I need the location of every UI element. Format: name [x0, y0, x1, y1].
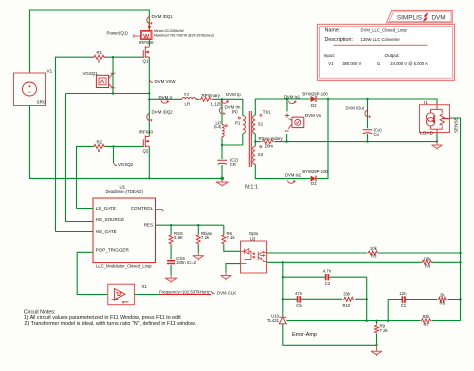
winding S2 [253, 146, 256, 164]
node switch to resonant junction [148, 98, 150, 100]
svg-text:3.9K: 3.9K [174, 235, 183, 240]
frequency underline [159, 294, 211, 296]
wire C5 R10 row [283, 298, 367, 300]
svg-text:Q1: Q1 [143, 59, 149, 64]
svg-text:33k: 33k [343, 292, 351, 297]
svg-text:DVM Ip: DVM Ip [226, 92, 241, 97]
svg-text:DVM: DVM [431, 14, 445, 21]
probe DVM IOut arrow [365, 110, 371, 118]
winding S1 [253, 115, 256, 133]
svg-text:TX1: TX1 [263, 109, 272, 114]
shunt regulator TL431 [279, 317, 286, 324]
wire VGSQ2 tap [113, 146, 115, 162]
resistor R3 [367, 251, 378, 255]
svg-text:R8: R8 [440, 300, 446, 305]
resistor Rbias [196, 234, 200, 245]
wire center tap rail to load [255, 134, 437, 147]
resistor R8 [438, 297, 447, 301]
node C1 branch junction [387, 320, 389, 322]
wire SENSE line [450, 118, 461, 321]
load internal wiring [431, 105, 450, 133]
node Vs minus junction [285, 140, 287, 142]
svg-text:DVM Vs: DVM Vs [305, 113, 322, 118]
DVM logo tab [387, 10, 453, 22]
svg-text:100n IC=2: 100n IC=2 [176, 260, 197, 265]
phase dot P1 [238, 117, 240, 119]
svg-text:5.6: 5.6 [184, 92, 189, 96]
wire opto LED cathode to ground [226, 264, 241, 273]
resistor R2 [93, 144, 105, 148]
transistor Q2 [142, 135, 149, 147]
svg-text:TL431: TL431 [267, 318, 280, 323]
probe DVM IDQ2 arrow [147, 114, 153, 122]
svg-text:HS_GATE: HS_GATE [96, 229, 117, 234]
wire HS_GATE drive [56, 57, 144, 231]
diode D1 [311, 176, 316, 182]
svg-text:47n: 47n [295, 291, 303, 296]
wire LS_GATE drive [77, 146, 144, 208]
wire X1 clock output [134, 294, 211, 296]
svg-text:Output:: Output: [385, 53, 400, 58]
voltage source V1 box [14, 73, 46, 106]
node center tap junction [254, 140, 256, 142]
wire C1 R8 row [388, 300, 460, 321]
resistor RPrimary [200, 97, 212, 101]
wire C2 row [283, 276, 367, 278]
svg-text:120W LLC Converter: 120W LLC Converter [361, 37, 401, 42]
load current source [426, 113, 435, 126]
wire reference row [286, 320, 460, 322]
power probe leader line [134, 34, 141, 37]
power probe W box [141, 31, 153, 41]
capacitor CSS [167, 261, 175, 264]
svg-text:1.125: 1.125 [211, 102, 223, 107]
svg-text:X1: X1 [142, 284, 148, 289]
node Q2 gate junction [112, 145, 114, 147]
node Q1 gate junction [112, 56, 114, 58]
node Q2 source rail junction [148, 177, 150, 179]
node load return junction [436, 140, 438, 142]
wire opto emitter row to SENSE [267, 261, 461, 263]
svg-text:N:1:1: N:1:1 [245, 184, 258, 190]
wire VGSQ1 gate-source tap [112, 57, 114, 93]
node C5 row junction [282, 298, 284, 300]
probe DVM Im arrow [220, 107, 226, 115]
probe VGSQ1 box [96, 73, 115, 88]
svg-text:10k: 10k [370, 246, 378, 251]
svg-text:Q2: Q2 [143, 149, 149, 154]
svg-text:CR: CR [230, 162, 236, 167]
svg-text:VGSQ2: VGSQ2 [118, 162, 134, 167]
clock source X1 symbol [112, 289, 129, 304]
svg-text:SENSE: SENSE [454, 117, 459, 133]
wire POP_TRIGGER to X1 [77, 252, 108, 294]
svg-text:DVM IDQ1: DVM IDQ1 [152, 14, 174, 19]
wire R9 column [376, 321, 378, 346]
ground CSS [165, 275, 177, 283]
wire secondary top rail [255, 99, 437, 115]
wire R6 branch to opto LED [224, 225, 241, 251]
ground error amp [371, 348, 382, 356]
svg-text:SIMPLIS: SIMPLIS [397, 14, 422, 21]
svg-text:RPrimary: RPrimary [202, 93, 221, 98]
phase dot LP [225, 125, 227, 127]
svg-text:Error-Amp: Error-Amp [292, 332, 317, 338]
node Vs plus junction [286, 98, 288, 100]
wire RES rail [156, 224, 224, 226]
probe power arrow [148, 24, 151, 29]
wire Rbias branch [197, 225, 199, 252]
svg-text:DVM IDQ2: DVM IDQ2 [152, 109, 174, 114]
wire compensation vertical [282, 262, 284, 316]
subcircuit U1 box [93, 198, 156, 263]
svg-text:R2: R2 [97, 139, 103, 144]
svg-text:RSecondary: RSecondary [259, 136, 284, 141]
svg-text:R1: R1 [97, 50, 103, 55]
resistor R7 [421, 319, 432, 323]
svg-text:LLC_Modulator_Closed_Loop: LLC_Modulator_Closed_Loop [96, 263, 152, 268]
svg-text:SRC: SRC [37, 100, 47, 105]
ground error amp stub [376, 345, 378, 348]
wire load bottom [436, 133, 438, 142]
svg-text:R10: R10 [343, 303, 351, 308]
svg-text:C5: C5 [296, 303, 302, 308]
svg-text:Deadtime=(TDEAD): Deadtime=(TDEAD) [106, 189, 144, 194]
svg-text:Name:: Name: [325, 28, 341, 34]
probe DVM VSW hook [149, 80, 153, 83]
svg-text:S2: S2 [258, 152, 264, 157]
svg-text:Power(Q1): Power(Q1) [107, 31, 129, 36]
node Co top junction [366, 98, 368, 100]
svg-text:IRF640: IRF640 [139, 40, 154, 45]
DVM lightning bolt [423, 13, 428, 22]
probe DVM IDQ1 arrow [147, 17, 153, 25]
wire comp right vertical [366, 277, 368, 321]
resistor RSecondary [262, 140, 274, 144]
svg-text:IRF640: IRF640 [139, 130, 154, 135]
DVM info box [318, 24, 455, 80]
probe DVM Vs box [288, 117, 304, 129]
clock source X1 box [108, 284, 135, 305]
svg-text:Input:: Input: [324, 53, 336, 58]
phase dot S1 [260, 114, 262, 116]
svg-text:DVM Ir: DVM Ir [159, 95, 173, 100]
node comp network junction [282, 261, 284, 263]
svg-text:Maximum=59.7087W @24.2678uSecs: Maximum=59.7087W @24.2678uSecs [154, 33, 214, 37]
svg-text:7.2k: 7.2k [201, 235, 210, 240]
svg-text:Frequency=102.537kHertz: Frequency=102.537kHertz [159, 289, 210, 294]
svg-text:(N): (N) [232, 109, 238, 114]
node LP top junction [221, 98, 223, 100]
transformer core [249, 111, 251, 167]
probe DVM Is1 arrow [289, 101, 297, 104]
wire CONTROL stub [156, 210, 164, 212]
svg-text:12n: 12n [399, 291, 407, 296]
svg-text:(L4): (L4) [214, 124, 222, 129]
DVM box separator [334, 44, 428, 46]
resistor RSS [169, 234, 173, 245]
wire CR resonant cap branch [221, 145, 223, 178]
wire HS_SOURCE to switch node [66, 94, 150, 222]
wire LP magnetizing branch [222, 99, 243, 145]
svg-text:R4: R4 [425, 264, 431, 269]
node SENSE R3 junction [459, 252, 461, 254]
svg-text:I1: I1 [424, 100, 428, 105]
optocoupler U3 internals [241, 249, 267, 264]
svg-text:RES: RES [144, 223, 153, 228]
svg-text:82k: 82k [423, 314, 431, 319]
node R10 right junction [366, 298, 368, 300]
svg-text:R7: R7 [424, 322, 430, 327]
svg-text:V1: V1 [47, 69, 53, 74]
probe DVM Vs plus [285, 113, 289, 117]
wire Q2 source to rail [148, 146, 150, 178]
svg-text:V1: V1 [328, 61, 334, 66]
probe DVM CLK hook [211, 291, 215, 294]
svg-text:Description:: Description: [325, 37, 353, 43]
probe DVM Is2 arrow [288, 180, 296, 183]
svg-text:20m: 20m [265, 144, 274, 149]
wire RSS branch [170, 225, 172, 275]
winding P1 [243, 116, 246, 134]
resistor R4 [421, 260, 432, 264]
node Rbias junction [197, 224, 199, 226]
capacitor Co [363, 130, 373, 134]
diode D2 [311, 96, 316, 102]
probe DVM Ip arrow [221, 100, 229, 103]
svg-text:P1: P1 [235, 121, 241, 126]
node RSS junction [170, 224, 172, 226]
node C2 row junction [282, 276, 284, 278]
node Q1 source junction [112, 92, 114, 94]
node LP bottom junction [221, 144, 223, 146]
svg-text:POP_TRIGGER: POP_TRIGGER [96, 248, 130, 253]
node D1 cathode junction [327, 98, 329, 100]
svg-text:DVM CLK: DVM CLK [217, 290, 236, 295]
probe DVM Vs minus [285, 130, 289, 132]
node R9 ground junction [375, 344, 377, 346]
wire S2 to D1 [255, 99, 328, 179]
svg-text:4.7n: 4.7n [323, 268, 332, 273]
svg-text:BYW29P-100: BYW29P-100 [302, 169, 328, 174]
svg-text:DVM_LLC_Closed_Loop: DVM_LLC_Closed_Loop [361, 27, 408, 32]
svg-text:R3: R3 [371, 253, 377, 258]
svg-text:Co: Co [374, 132, 380, 137]
svg-text:D2: D2 [311, 103, 317, 108]
probe DVM Ir arrow [161, 100, 169, 103]
inductor LR [182, 98, 196, 100]
svg-text:24.000 V @ 5.000 A: 24.000 V @ 5.000 A [390, 61, 428, 66]
transistor Q2 arrow [146, 140, 149, 143]
node R9 top junction [375, 320, 377, 322]
ground Rbias [193, 252, 204, 260]
optocoupler U3 box [241, 241, 267, 273]
svg-text:DVM Is2: DVM Is2 [285, 172, 302, 177]
ground load [432, 142, 443, 150]
ground opto LED [221, 272, 232, 280]
svg-text:W: W [143, 33, 150, 40]
capacitor C2 [326, 274, 329, 280]
svg-text:DVM VSW: DVM VSW [155, 79, 177, 84]
capacitor CR [217, 160, 227, 164]
resistor R9 [375, 324, 379, 334]
voltage source V1 circle [23, 82, 37, 96]
svg-text:HS_SOURCE: HS_SOURCE [96, 217, 125, 222]
node ref row left junction [366, 320, 368, 322]
wire Co branch [367, 99, 369, 142]
capacitor C1 [402, 296, 405, 302]
svg-text:LR: LR [185, 102, 191, 107]
phase dot S2 [260, 146, 262, 148]
node Co bottom junction [366, 140, 368, 142]
svg-text:CONTROL: CONTROL [131, 206, 154, 211]
wire Vs plus stub [286, 99, 288, 112]
svg-text:D1: D1 [311, 181, 317, 186]
inductor LP [222, 125, 224, 137]
load resistor [440, 113, 444, 126]
svg-text:BYW29P-100: BYW29P-100 [302, 92, 328, 97]
svg-text:7.1k: 7.1k [227, 235, 236, 240]
probe VGSQ2 hook [114, 163, 118, 166]
svg-text:S1: S1 [258, 121, 264, 126]
wire opto collector row to SENSE [267, 252, 461, 254]
wire input V+ from V1 to Q1 drain [30, 10, 150, 73]
wire resonant branch [149, 99, 243, 115]
transistor Q1 [142, 46, 149, 58]
node SENSE C1 junction [459, 298, 461, 300]
svg-text:2) Transformer model is ideal,: 2) Transformer model is ideal, with turn… [25, 321, 196, 327]
wire Vs minus stub [286, 134, 288, 142]
wire primary 0V rail [30, 106, 223, 179]
svg-text:7.2k: 7.2k [380, 328, 389, 333]
svg-text:LOAD: LOAD [420, 131, 434, 137]
node SENSE R4 junction [459, 261, 461, 263]
wire TL431 anode to ground row [283, 324, 377, 346]
capacitor C5 [298, 296, 301, 302]
node switch node HS junction [148, 92, 150, 94]
resistor R10 [343, 297, 354, 301]
node CR rail junction [220, 177, 224, 181]
svg-text:VGSQ1: VGSQ1 [83, 71, 99, 76]
wire half-bridge switch node column [148, 57, 150, 137]
resistor R1 [93, 55, 105, 59]
resistor R6 [222, 234, 226, 245]
svg-text:380.000 V: 380.000 V [342, 61, 361, 66]
svg-text:DVM Is1: DVM Is1 [284, 94, 301, 99]
transistor Q1 arrow [146, 50, 149, 53]
svg-text:C2: C2 [325, 281, 331, 286]
svg-text:LS_GATE: LS_GATE [96, 206, 116, 211]
load I1 box [420, 105, 450, 133]
ground primary [216, 179, 229, 187]
svg-text:DVM IOut: DVM IOut [346, 106, 365, 111]
svg-text:C1: C1 [401, 303, 407, 308]
